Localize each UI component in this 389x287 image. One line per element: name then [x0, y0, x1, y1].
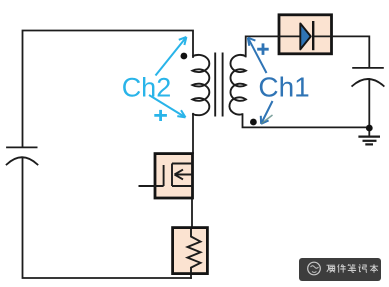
svg-text:Ch2: Ch2: [122, 73, 172, 103]
svg-text:Ch1: Ch1: [258, 71, 309, 102]
